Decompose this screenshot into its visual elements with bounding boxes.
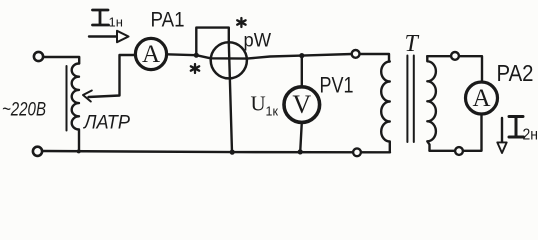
junction (voltmeter bottom) <box>298 149 303 154</box>
arrow I1н <box>89 35 117 37</box>
junction (wattmeter bottom) <box>230 150 235 155</box>
top wire (PA1 to transformer primary) <box>167 54 389 62</box>
junction (autotransformer bottom) <box>77 149 81 153</box>
terminal X2 (bottom input) <box>33 147 42 156</box>
terminal (secondary top) <box>451 52 459 60</box>
transformer core <box>407 56 413 143</box>
wire (wattmeter voltage-coil bypass) <box>196 28 229 54</box>
autotransformer core bar <box>66 66 68 131</box>
wire (terminal to autotransformer top) <box>44 57 80 64</box>
transformer T primary winding <box>381 62 390 153</box>
wire (voltmeter bottom) <box>300 122 302 151</box>
arrow I2н <box>501 118 503 142</box>
asterisk (wattmeter voltage terminal) <box>237 18 245 27</box>
transformer T secondary winding <box>427 56 436 151</box>
asterisk (wattmeter current terminal) <box>191 64 199 73</box>
terminal (transformer primary bottom) <box>353 148 361 156</box>
wire (secondary top, to PA2) <box>427 56 482 82</box>
svg-text:PA2: PA2 <box>497 60 534 86</box>
svg-text:1н: 1н <box>109 15 123 30</box>
ammeter PA2 <box>466 82 498 114</box>
autotransformer ЛАТР winding <box>72 64 79 152</box>
label I2н <box>509 117 524 138</box>
bottom wire (primary circuit) <box>43 151 391 152</box>
svg-text:A: A <box>472 85 490 112</box>
wattmeter pW <box>211 42 247 78</box>
terminal (transformer primary top) <box>352 50 360 58</box>
svg-text:1к: 1к <box>266 105 279 119</box>
svg-text:PA1: PA1 <box>151 9 185 32</box>
wire (voltmeter drop) <box>301 56 303 87</box>
label I1н <box>93 10 109 25</box>
svg-text:T: T <box>405 31 420 57</box>
wire (wattmeter vertical, down to bottom wire) <box>229 43 232 153</box>
svg-text:2н: 2н <box>523 127 538 144</box>
svg-text:ЛАТР: ЛАТР <box>82 113 130 134</box>
wire (secondary bottom loop) <box>430 114 482 151</box>
ammeter PA1 <box>135 38 166 69</box>
svg-text:A: A <box>142 41 160 68</box>
svg-text:U: U <box>251 92 266 116</box>
junction (voltmeter top) <box>299 53 304 58</box>
svg-text:~220В: ~220В <box>2 100 46 121</box>
wiper arrow of ЛАТР <box>83 91 92 102</box>
wire (wiper tap up to ammeter PA1) <box>89 55 136 97</box>
voltmeter PV1 <box>284 87 320 123</box>
junction (wattmeter voltage tap) <box>194 53 199 58</box>
svg-text:pW: pW <box>244 31 272 52</box>
terminal (secondary bottom) <box>455 147 463 155</box>
terminal X1 (top input) <box>34 52 43 61</box>
svg-text:PV1: PV1 <box>320 73 354 98</box>
svg-text:V: V <box>292 90 311 119</box>
